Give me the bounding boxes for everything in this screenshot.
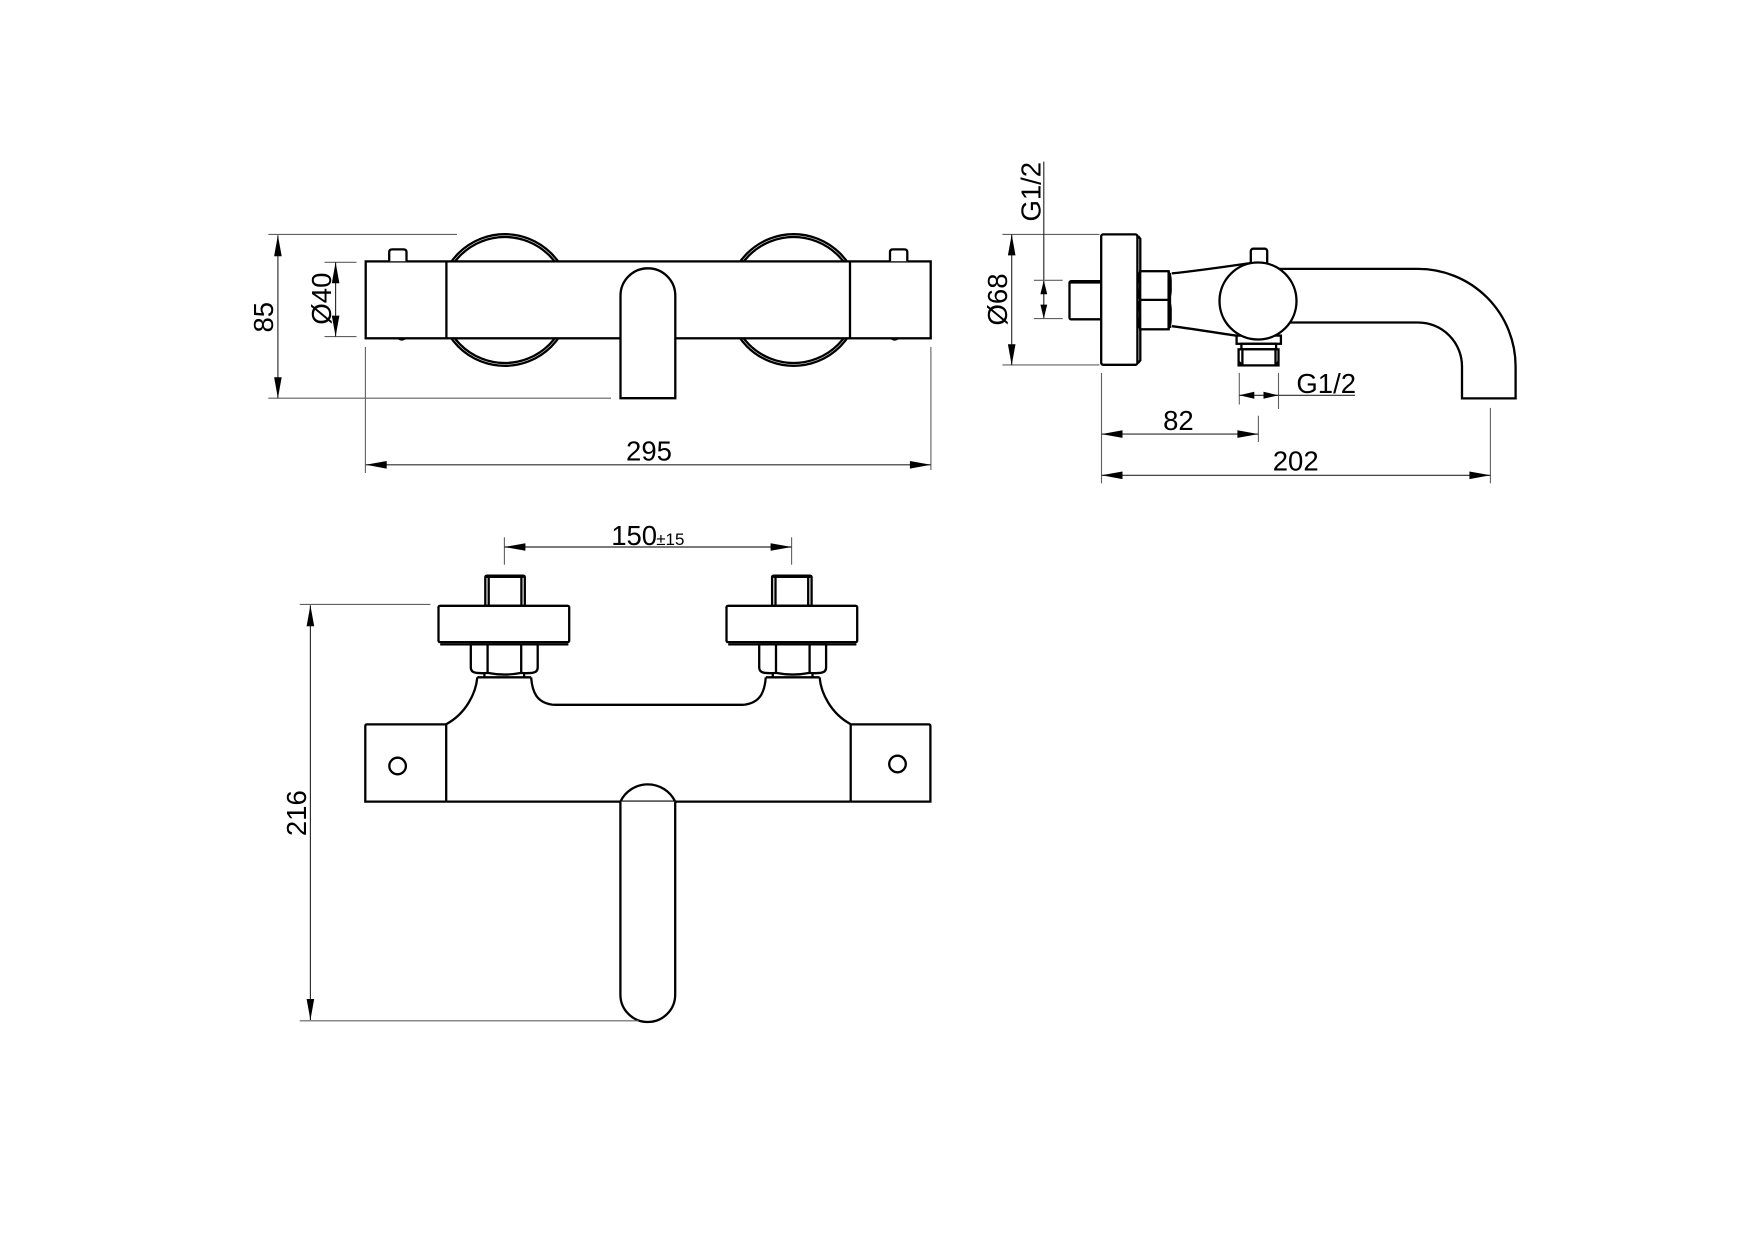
arrow thread right: [1264, 392, 1279, 399]
ext line d40 bottom: [325, 336, 357, 338]
svg-text:85: 85: [248, 302, 279, 333]
arrow d40 down: [332, 316, 340, 337]
thread bottom chamfer right: [1276, 362, 1279, 366]
right hex inner line R: [808, 644, 810, 673]
right inlet pipe square: [772, 576, 812, 606]
left mounting block: [365, 724, 446, 801]
left inlet pipe inner line L: [488, 577, 490, 606]
arrow nipple up: [1040, 280, 1047, 294]
ext line 202 right: [1489, 408, 1491, 484]
left knob circle outer: [439, 234, 571, 366]
svg-text:G1/2: G1/2: [1296, 368, 1356, 399]
bar bottom edge left segment: [446, 800, 620, 802]
ext line 82 right: [1257, 416, 1259, 442]
arrow thread left: [1239, 392, 1254, 399]
body cone fill: [1172, 263, 1262, 336]
arrow 82 right: [1237, 430, 1258, 438]
G1/2 top leader line: [1043, 162, 1045, 319]
left knob circle inner: [442, 237, 568, 363]
thread relief line right: [1274, 349, 1276, 365]
ext line 295 left: [364, 347, 366, 473]
arrow 202 right: [1469, 472, 1490, 480]
arrow 150 left: [504, 543, 525, 551]
ext line 85 bottom: [268, 397, 611, 399]
spout tube with bend: [1280, 269, 1516, 399]
wall plate side edge: [1138, 236, 1140, 363]
valve body circle: [1220, 263, 1297, 340]
dimension 202 line: [1102, 474, 1491, 476]
right end cap divider: [849, 261, 851, 338]
right inlet pipe inner line L: [774, 577, 776, 606]
ext line G1/2 thread right: [1278, 373, 1280, 409]
arrow 216 down: [307, 999, 315, 1020]
right inlet neck walls: [773, 673, 813, 677]
svg-text:202: 202: [1273, 446, 1319, 477]
arrow d40 up: [332, 262, 340, 283]
body cone bottom line: [1172, 326, 1237, 336]
ext line 216 top: [300, 603, 431, 605]
hex nut right face arcs: [1169, 272, 1172, 330]
arrow d68 down: [1008, 344, 1016, 365]
ext line nipple top: [1034, 279, 1063, 281]
svg-text:216: 216: [281, 790, 312, 836]
left inlet neck walls: [484, 673, 524, 677]
left inlet shoulder: [477, 676, 531, 678]
svg-text:±15: ±15: [656, 530, 684, 549]
hex nut left face arcs: [1138, 272, 1141, 330]
arrow 85 down: [274, 377, 282, 398]
right knob circle outer: [728, 234, 860, 366]
arrow 150 right: [771, 543, 792, 551]
left hex inner line R: [520, 644, 522, 673]
arrow 82 left: [1102, 430, 1123, 438]
left wall plate lip: [440, 643, 568, 645]
dimension 150 line: [504, 546, 791, 548]
svg-text:295: 295: [626, 436, 672, 467]
dimension 216 line: [309, 605, 311, 1020]
arrow d68 up: [1008, 234, 1016, 255]
right inlet pipe top edge: [773, 576, 810, 578]
knob button (side): [1251, 249, 1267, 267]
right wall plate lip: [728, 643, 856, 645]
arrow 295 right: [910, 461, 931, 469]
arrow 295 left: [366, 461, 387, 469]
left hex inner line L: [486, 644, 488, 673]
spout tip bump (plan): [620, 784, 675, 801]
right inlet pipe inner line R: [807, 577, 809, 606]
dimension d40 line: [335, 262, 337, 336]
wall plate: [1101, 234, 1137, 364]
nipple top thick edge: [1071, 281, 1101, 283]
arrow 85 up: [274, 235, 282, 256]
left screw hole: [389, 758, 406, 775]
body bar: [366, 261, 931, 338]
right screw hole: [889, 756, 906, 773]
svg-text:150: 150: [611, 520, 657, 551]
dimension 295 line: [366, 464, 931, 466]
bottom port collar: [1237, 336, 1281, 344]
left hex nut (plan): [471, 644, 538, 674]
left inlet pipe inner line R: [520, 577, 522, 606]
right inlet shoulder: [766, 676, 820, 678]
ext line G1/2 thread left: [1238, 373, 1240, 405]
dimension 82 line: [1102, 433, 1259, 435]
right hex inner line L: [775, 644, 777, 673]
body top profile with fairings: [446, 677, 851, 724]
arrow 216 up: [307, 605, 315, 626]
left wall plate (plan): [439, 606, 570, 642]
bottom port thread: [1239, 349, 1279, 365]
ext line nipple bottom: [1034, 318, 1063, 320]
right top button: [890, 249, 907, 261]
spout body (plan): [620, 802, 675, 1022]
right block divider: [850, 724, 852, 801]
left bottom tick: [397, 339, 406, 341]
right knob circle inner: [731, 237, 857, 363]
body cone top line: [1172, 263, 1252, 274]
right mounting block: [851, 724, 931, 801]
ext line d68 top: [1002, 233, 1099, 235]
arrow 202 left: [1102, 472, 1123, 480]
ext line 150 right: [791, 537, 793, 564]
bottom port neck: [1241, 344, 1276, 350]
right wall plate (plan): [727, 606, 858, 642]
svg-text:Ø68: Ø68: [982, 274, 1013, 326]
ext line 85 top: [268, 233, 457, 235]
dimension 85 line: [277, 235, 279, 398]
left top button: [389, 249, 406, 261]
thread relief line left: [1241, 349, 1243, 365]
ext line d40 top: [325, 261, 357, 263]
ext line 295 right: [930, 347, 932, 470]
arrow nipple down: [1040, 305, 1047, 319]
dimension d68 line: [1011, 234, 1013, 365]
right hex nut (plan): [759, 644, 826, 674]
svg-text:G1/2: G1/2: [1016, 162, 1047, 222]
svg-text:82: 82: [1163, 405, 1194, 436]
ext line 82 left: [1101, 373, 1103, 483]
left block divider: [445, 724, 447, 801]
left end cap divider: [445, 261, 447, 338]
hex nut (side): [1140, 271, 1168, 329]
left inlet pipe top edge: [487, 576, 524, 578]
wall nipple G1/2: [1070, 281, 1102, 319]
ext line d68 bottom: [1002, 364, 1099, 366]
thread bottom chamfer left: [1239, 362, 1243, 366]
hex-body interface line: [1169, 273, 1171, 328]
bar bottom edge right segment: [675, 800, 851, 802]
dimension G1/2 thread line: [1239, 394, 1355, 396]
spout (front): [621, 268, 676, 398]
ext line 216 bottom: [300, 1020, 639, 1022]
ext line 150 left: [503, 537, 505, 564]
right bottom tick: [890, 339, 899, 341]
left inlet pipe square: [485, 576, 525, 606]
svg-text:Ø40: Ø40: [306, 273, 337, 325]
hex nut midline: [1140, 299, 1168, 301]
